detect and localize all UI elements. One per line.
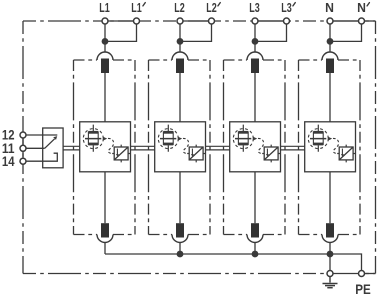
svg-text:L1: L1 [99,0,110,15]
svg-text:L1: L1 [131,0,142,15]
svg-text:PE: PE [355,281,371,297]
svg-text:14: 14 [2,153,15,169]
svg-text:L2: L2 [206,0,217,15]
svg-text:L3: L3 [281,0,292,15]
svg-text:N: N [357,0,366,15]
svg-text:L3: L3 [249,0,260,15]
svg-text:L2: L2 [174,0,185,15]
svg-text:N: N [325,0,334,15]
